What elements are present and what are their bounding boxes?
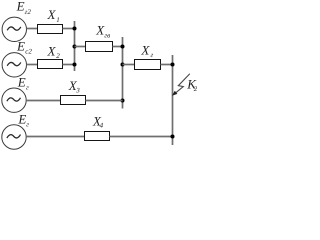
wire mid right: [113, 46, 123, 48]
source G1 (AC generator, top row): [2, 17, 26, 41]
svg-text:г: г: [151, 51, 154, 59]
reactance X1: [38, 25, 63, 34]
svg-text:г2: г2: [25, 8, 32, 16]
node A1: [73, 27, 77, 31]
svg-text:4: 4: [100, 122, 104, 130]
label X1: [47, 7, 60, 24]
svg-text:3: 3: [75, 86, 80, 94]
label X2: [47, 44, 61, 61]
label Ec: [17, 111, 29, 128]
svg-text:2: 2: [194, 85, 197, 93]
wire Xu left: [123, 64, 135, 66]
wire row4 right: [110, 136, 173, 138]
wire row1 left: [27, 28, 38, 30]
svg-text:1: 1: [56, 16, 60, 24]
bus B: [122, 37, 124, 109]
label X3: [68, 78, 80, 94]
node A3: [73, 63, 77, 67]
svg-text:E: E: [17, 111, 26, 126]
wire row3 left: [26, 100, 60, 102]
svg-text:г: г: [26, 84, 29, 92]
node A2: [73, 45, 77, 49]
node C2: [171, 135, 175, 139]
svg-text:X: X: [140, 43, 150, 58]
svg-text:E: E: [16, 0, 25, 14]
reactance X3: [61, 96, 86, 105]
label Xgv: [95, 23, 110, 40]
wire row1 right: [63, 28, 75, 30]
label Eg: [17, 75, 29, 92]
node B2: [121, 63, 125, 67]
label Xu: [140, 43, 153, 60]
label K2: [186, 76, 198, 93]
source G3 (AC generator, third row): [2, 88, 26, 112]
node B1: [121, 45, 125, 49]
reactance Xu: [135, 60, 161, 70]
svg-text:г: г: [26, 120, 29, 128]
source G4 (AC generator, bottom row): [2, 125, 26, 149]
source G2 (AC generator, second row): [2, 53, 26, 77]
svg-text:E: E: [16, 39, 25, 54]
bus C: [172, 55, 174, 145]
reactance X2: [38, 60, 63, 69]
reactance X4: [85, 132, 110, 141]
label Ec2: [16, 39, 32, 56]
wire row2 right: [63, 64, 75, 66]
wire row3 right: [86, 100, 123, 102]
node C1: [171, 63, 175, 67]
reactance Xgv: [86, 42, 113, 52]
bus A: [74, 21, 76, 71]
svg-text:X: X: [47, 7, 57, 22]
svg-text:с2: с2: [25, 48, 32, 56]
svg-text:X: X: [47, 44, 57, 59]
node B3: [121, 99, 125, 103]
svg-text:2: 2: [56, 52, 60, 60]
svg-text:E: E: [17, 75, 26, 90]
svg-text:гв: гв: [104, 31, 110, 39]
wire row4 left: [26, 136, 84, 138]
label Eg2: [16, 0, 32, 16]
wire row2 left: [27, 64, 38, 66]
wire mid left: [75, 46, 86, 48]
wire Xu right: [161, 64, 173, 66]
label X4: [92, 114, 104, 130]
fault arrow K: [172, 74, 190, 96]
